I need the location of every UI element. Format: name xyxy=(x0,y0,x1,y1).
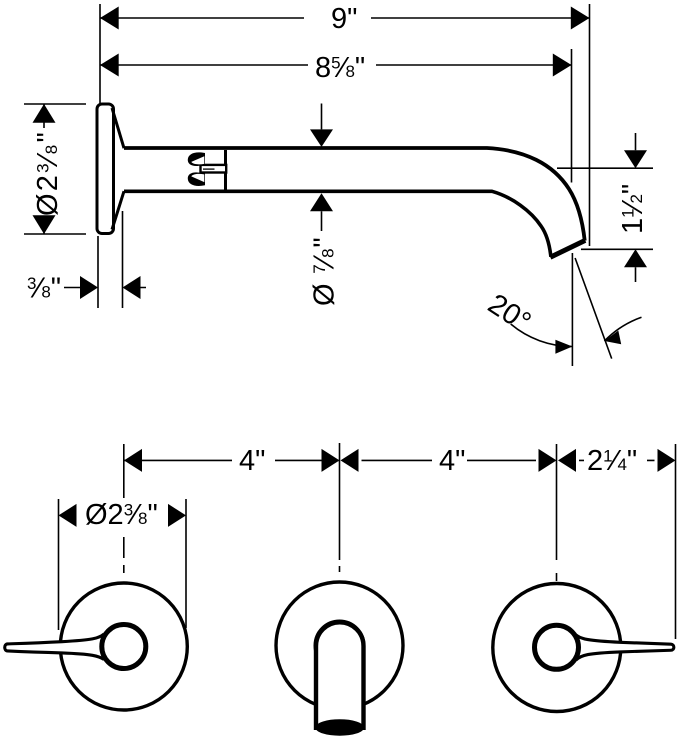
svg-text:Ø23⁄8": Ø23⁄8" xyxy=(32,130,64,216)
svg-text:3⁄8": 3⁄8" xyxy=(27,273,61,305)
svg-text:4": 4" xyxy=(439,445,465,477)
svg-text:Ø23⁄8": Ø23⁄8" xyxy=(85,499,158,531)
svg-text:9": 9" xyxy=(331,3,357,35)
svg-text:21⁄4": 21⁄4" xyxy=(587,445,637,477)
svg-text:4": 4" xyxy=(239,445,265,477)
svg-text:Ø 7⁄8": Ø 7⁄8" xyxy=(309,236,341,306)
svg-text:11⁄2": 11⁄2" xyxy=(617,184,649,234)
svg-text:85⁄8": 85⁄8" xyxy=(315,52,365,84)
svg-text:20°: 20° xyxy=(482,288,536,339)
